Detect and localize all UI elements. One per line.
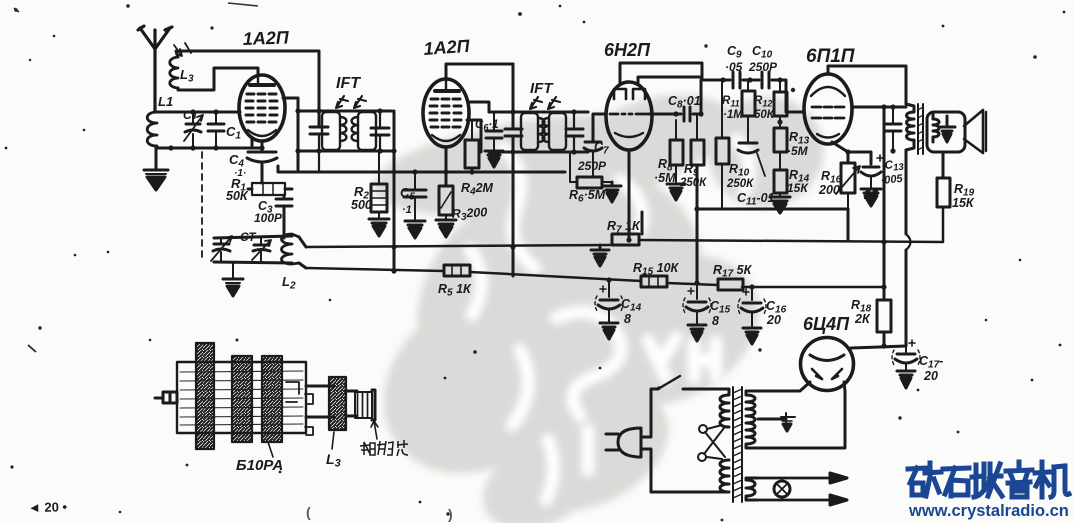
ground C17	[897, 371, 915, 388]
vacuum tube V1 1A2P	[239, 75, 285, 141]
resistor R14	[774, 170, 787, 197]
node C13a	[890, 104, 895, 109]
svg-text:Б10РА: Б10РА	[236, 457, 283, 474]
svg-text:50К: 50К	[754, 109, 775, 121]
svg-text:IFT: IFT	[530, 80, 554, 97]
resistor R3	[439, 186, 453, 220]
coil L1	[147, 112, 157, 148]
node C13b	[890, 148, 895, 153]
resistor R7	[612, 234, 639, 245]
winding band 3	[262, 356, 282, 442]
svg-text:L3: L3	[326, 451, 341, 470]
dashed gang line	[201, 152, 203, 258]
svg-text:R11: R11	[722, 95, 740, 109]
capacitor C4	[247, 152, 277, 162]
svg-text:www.crystalradio.cn: www.crystalradio.cn	[908, 502, 1069, 520]
svg-text:8: 8	[712, 314, 719, 328]
ground R8	[667, 184, 685, 200]
wire heater line2 arrow	[757, 495, 847, 505]
wire C12 link	[848, 152, 871, 164]
iron core	[355, 390, 375, 420]
coil IFT1-L2	[352, 112, 376, 150]
svg-text:L2: L2	[282, 274, 296, 292]
wire V5 right lead	[757, 382, 845, 448]
node R9b	[694, 280, 699, 285]
vacuum tube V3 6N2P	[606, 82, 652, 150]
node IFT2c	[571, 109, 576, 114]
node busA2	[626, 237, 631, 242]
resistor R15	[641, 276, 667, 287]
resistor R4	[465, 120, 479, 172]
svg-text:250К: 250К	[679, 177, 707, 189]
svg-text:(: (	[306, 504, 311, 520]
svg-text:·1: ·1	[402, 204, 412, 216]
wire V2 top-to-busB vertical	[512, 64, 515, 276]
capacitor IFT2-Cb	[566, 112, 583, 152]
coil assembly B10RA drawing	[155, 343, 378, 457]
wire C8 link	[649, 80, 701, 114]
capacitor IFT1-Cb	[371, 111, 389, 151]
svg-text:250К: 250К	[726, 178, 754, 190]
svg-text:200: 200	[818, 183, 840, 197]
node V2a	[391, 148, 396, 153]
node IFT2d	[571, 149, 576, 154]
wire gang top bus	[214, 236, 292, 238]
svg-text:2К: 2К	[854, 312, 871, 326]
IFT1 bottom rail	[298, 150, 392, 153]
wire C4 node down	[277, 166, 280, 172]
speaker coil	[933, 114, 939, 142]
wire V3 cathode down	[628, 150, 631, 240]
node C8a	[673, 111, 678, 116]
svg-text:100Р: 100Р	[254, 211, 283, 225]
wire V2 left lead down	[393, 111, 396, 271]
V2 cathode arc	[432, 135, 460, 141]
svg-text:25: 25	[863, 188, 879, 202]
ground C14	[600, 323, 618, 339]
output transformer T2 primary	[906, 104, 914, 150]
coil L2	[282, 234, 300, 264]
node A2	[190, 145, 195, 150]
capacitor C11	[738, 122, 765, 176]
ground C5	[405, 221, 425, 238]
V4 cathode arc	[817, 134, 839, 138]
svg-text:L1: L1	[158, 94, 173, 109]
capacitor C16 electrolytic	[738, 287, 766, 328]
capacitor C15 electrolytic	[683, 283, 711, 325]
resistor R18	[877, 300, 891, 332]
wire V2 cathode down	[445, 149, 448, 186]
node V2c	[391, 268, 396, 273]
resistor R5	[444, 265, 470, 276]
node R12a	[777, 119, 782, 124]
L3 core arrows	[174, 43, 191, 56]
callout iron core arrow	[371, 421, 378, 439]
wire speaker to R19	[942, 152, 945, 178]
capacitor C6	[486, 112, 502, 151]
coil body	[177, 362, 306, 433]
svg-text:IFT: IFT	[336, 75, 361, 92]
svg-text:·5М: ·5М	[787, 144, 809, 158]
V5 anode left	[812, 369, 822, 379]
resistor R10	[716, 80, 729, 209]
capacitor C17 electrolytic	[892, 340, 920, 371]
wire V3 plate2 top	[638, 77, 700, 84]
wire bus A left	[306, 245, 610, 247]
wire C9C10 line	[702, 80, 804, 112]
ground R7tap	[591, 245, 609, 266]
node Bp2	[881, 284, 886, 289]
ground C12	[861, 189, 881, 206]
IFT2 top rail	[489, 111, 588, 114]
ground R3	[436, 220, 456, 237]
resistor R16	[836, 163, 860, 209]
svg-text:15К: 15К	[952, 196, 975, 210]
capacitor IFT2-Ca	[505, 129, 522, 136]
T2 core	[918, 104, 923, 154]
transformer T1 primary bottom	[718, 460, 729, 492]
V3 anode symbols	[614, 89, 645, 99]
ground C6	[485, 151, 503, 167]
wire gang bottom bus	[214, 262, 292, 263]
svg-text:6Н2П: 6Н2П	[604, 40, 651, 60]
wire V5 to C17	[851, 346, 906, 348]
svg-text:15К: 15К	[787, 181, 809, 195]
IFT2 core arrows	[530, 97, 560, 109]
wire bus B left	[306, 268, 884, 287]
node IFT1c	[377, 108, 382, 113]
V3 grid dashes	[610, 113, 648, 116]
svg-text:L3: L3	[180, 67, 194, 85]
svg-text:1А2П: 1А2П	[423, 36, 471, 59]
wire grid bus y112	[156, 111, 240, 114]
wire cathode return y209	[697, 209, 848, 241]
wire V5 left lead	[757, 382, 810, 391]
resistor R9	[691, 114, 704, 165]
capacitor C8	[684, 107, 690, 121]
body shading	[180, 371, 303, 425]
wire bus A right	[639, 207, 943, 242]
ground HV tap	[781, 413, 795, 431]
T1 secondary HV	[746, 391, 757, 448]
V1 top cap bar	[250, 83, 274, 87]
svg-text:СТ: СТ	[183, 108, 200, 122]
V5 anode right	[832, 369, 842, 379]
resistor R8	[670, 120, 683, 184]
char shi	[943, 468, 969, 496]
V2 grid mesh	[430, 99, 461, 127]
char ji	[1035, 462, 1069, 497]
IFT2 bottom rail	[489, 151, 588, 154]
node busB2	[749, 284, 754, 289]
wire C4 to R1	[248, 163, 262, 189]
svg-text:6П1П: 6П1П	[806, 46, 855, 67]
T1 heater winding	[746, 478, 757, 500]
node IFT2a	[510, 109, 515, 114]
wire V3 plate1 top	[620, 63, 702, 84]
IFT1 top rail	[298, 110, 392, 113]
node K4	[845, 149, 850, 154]
resistor R17	[718, 279, 743, 290]
wire V2 top lead	[446, 64, 513, 80]
resistor R2	[371, 151, 387, 219]
node IFT1d	[377, 148, 382, 153]
svg-text:С10: С10	[752, 44, 773, 61]
capacitor C7	[584, 142, 602, 177]
svg-text:·1М: ·1М	[723, 109, 743, 121]
resistor R11	[742, 80, 755, 143]
ground speaker	[939, 116, 955, 142]
resistor R6	[570, 152, 612, 188]
wire B+ vertical	[883, 107, 886, 345]
svg-text:С4: С4	[229, 152, 244, 170]
coil IFT1-L1	[322, 112, 346, 150]
antenna	[138, 26, 172, 112]
watermark CJK title strokes	[908, 462, 1069, 497]
transformer T1 primary top	[718, 389, 729, 427]
coil L3	[170, 57, 178, 88]
svg-text:СТ: СТ	[240, 230, 257, 244]
speaker frame	[927, 112, 965, 152]
V5 top arc	[810, 355, 844, 361]
char shou	[972, 464, 1002, 497]
svg-text:С9: С9	[727, 44, 742, 61]
svg-text:1А2П: 1А2П	[242, 27, 290, 49]
power plug	[606, 428, 641, 457]
wire V4 screen lead	[852, 106, 906, 109]
char yin	[1006, 462, 1032, 497]
wire plug bottom	[641, 449, 718, 492]
char kuang	[908, 463, 941, 496]
capacitor C1	[208, 112, 224, 148]
wire hop busA	[906, 234, 911, 250]
ground R6	[603, 182, 621, 202]
switch S1	[657, 376, 718, 390]
wire V1 plate lead	[283, 98, 298, 172]
node A1	[168, 145, 173, 150]
wire filament line y172	[278, 171, 565, 174]
IFT1 core arrows	[336, 96, 366, 108]
wire P1 top	[176, 51, 319, 127]
ground C15	[688, 325, 706, 341]
svg-text:С13: С13	[884, 158, 905, 174]
svg-text:·005: ·005	[880, 173, 904, 187]
svg-text:500: 500	[351, 198, 372, 212]
wire L2 to bus A	[299, 237, 306, 247]
wire L1 to ground	[155, 146, 158, 170]
V4 dome arc	[811, 87, 845, 96]
wire grid cap path	[178, 68, 258, 90]
resistor R13	[774, 128, 787, 170]
V1 grid mesh	[246, 94, 277, 122]
wire V2 plate lead	[468, 102, 489, 112]
shaft left	[155, 392, 177, 403]
winding band 1	[196, 343, 214, 449]
capacitor C5	[404, 172, 426, 221]
wire V4 cathode	[832, 142, 848, 163]
node V2b	[391, 244, 396, 249]
coil IFT2-L2	[543, 113, 566, 150]
ground R2	[369, 219, 389, 236]
capacitor CT variable	[184, 112, 203, 148]
capacitor CT2 variable	[211, 236, 232, 262]
svg-text:С6·1: С6·1	[475, 119, 499, 133]
V3 cathode arc	[615, 133, 643, 137]
wire HV center tap	[758, 418, 786, 421]
vacuum tube V5 6C4P rectifier	[801, 338, 854, 391]
wire R9 down to busB	[696, 165, 699, 283]
V2 top cap bar	[435, 89, 459, 93]
coil IFT2-L1	[521, 113, 544, 150]
lamp pilot	[774, 478, 790, 500]
node C10a	[747, 77, 752, 82]
ground antenna	[144, 148, 168, 190]
capacitor C14 electrolytic	[595, 280, 623, 323]
vacuum tube V4 6P1P	[804, 74, 852, 144]
wire R1 to C3	[284, 189, 292, 199]
label iron core CJK	[360, 440, 408, 456]
svg-text:20: 20	[766, 313, 781, 327]
node A4	[190, 109, 195, 114]
resistor R19	[937, 178, 950, 207]
svg-text:50К: 50К	[226, 189, 249, 203]
ground gang	[223, 262, 243, 296]
resistor R12	[774, 80, 787, 128]
capacitor C3	[276, 199, 292, 238]
svg-text:250Р: 250Р	[577, 159, 607, 173]
V4 grid dashes	[812, 107, 844, 118]
V1 cathode arc	[248, 130, 276, 136]
node IFT2e	[510, 244, 515, 249]
capacitor trimmer C2	[252, 238, 271, 262]
svg-text:·5М: ·5М	[654, 171, 676, 185]
T1 core	[733, 387, 742, 502]
right end details	[286, 382, 313, 435]
winding band 2	[232, 356, 252, 442]
capacitor C12 electrolytic	[861, 155, 883, 189]
wire heater line1 arrow	[757, 473, 847, 483]
wire ground bus y148	[156, 147, 262, 150]
coil L3 band	[329, 377, 346, 430]
svg-text:8: 8	[624, 312, 631, 326]
speaker cone	[964, 110, 983, 153]
wire V1 screen stub	[251, 139, 254, 148]
wire V1 cathode to C4	[261, 141, 264, 152]
node IFT1a	[316, 108, 321, 113]
node C9a	[720, 77, 725, 82]
node C10b	[777, 77, 782, 82]
svg-text:250Р: 250Р	[748, 60, 778, 74]
rod 2	[346, 391, 357, 416]
capacitor C10	[762, 72, 769, 88]
capacitor IFT1-Ca	[310, 51, 328, 172]
wire L2 to bus B	[299, 263, 306, 268]
node busB1	[606, 277, 611, 282]
callout B10RA	[268, 442, 273, 457]
capacitor C13	[885, 107, 901, 152]
wire V2 screen lead	[467, 120, 481, 152]
callout L3	[332, 432, 334, 449]
ground R14	[770, 197, 790, 213]
WATERMARK-GRAY	[349, 80, 839, 523]
node V5a	[881, 343, 886, 348]
node A3	[213, 145, 218, 150]
connecting rod	[306, 386, 334, 417]
node IFT1b	[316, 148, 321, 153]
node A5	[213, 109, 218, 114]
T1 voltage selector	[698, 425, 725, 461]
node IFT2b	[510, 149, 515, 154]
ground C16	[743, 328, 761, 344]
wire V3 grid lead	[593, 114, 606, 142]
svg-text:◄ 20 •: ◄ 20 •	[28, 499, 68, 515]
wire plug to switch	[641, 389, 658, 437]
capacitor C9	[733, 72, 740, 88]
wire T2 bottom down	[905, 150, 908, 345]
svg-text:·05: ·05	[725, 60, 743, 74]
wire V4 top cap	[828, 66, 906, 104]
resistor R1	[252, 183, 285, 195]
svg-text:С1: С1	[226, 124, 241, 142]
node R9a	[694, 206, 699, 211]
svg-text:6Ц4П: 6Ц4П	[803, 314, 850, 334]
node Bp1	[881, 239, 886, 244]
svg-text:20: 20	[923, 369, 938, 383]
BLUEWM	[908, 462, 1069, 520]
vacuum tube V2 1A2P	[423, 79, 469, 147]
